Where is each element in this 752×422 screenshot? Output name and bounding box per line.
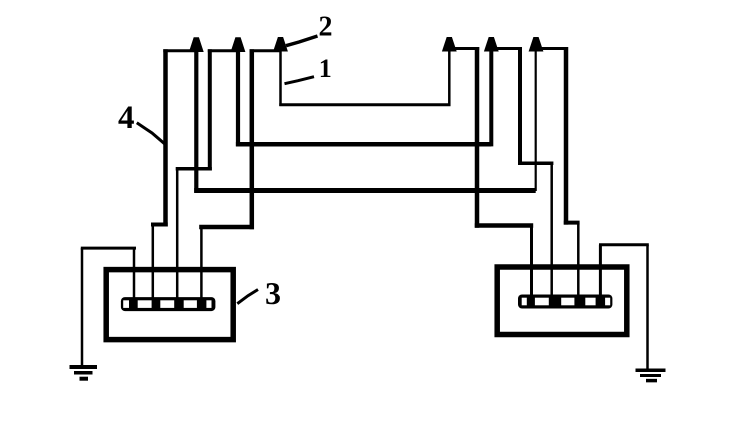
- wire: shield U1 left vertical 4: [163, 49, 168, 226]
- wire: shield U1' top (right): [449, 47, 479, 50]
- wire: arrow R2 shaft: [489, 44, 493, 146]
- wire: right ground vertical: [646, 245, 649, 370]
- wire: shield U1' jog: [475, 223, 533, 228]
- ground (right) bar1: [636, 368, 666, 372]
- wire: left ground vertical: [81, 248, 84, 366]
- wire: shield U1 top (left): [163, 49, 196, 52]
- wire: drop to left connector pin3: [176, 169, 179, 300]
- wire: arrow L2 shaft: [236, 44, 240, 146]
- ground (right) bar3: [646, 379, 657, 383]
- ground (left) bar2: [74, 371, 93, 375]
- connector contact strip (left): [121, 297, 215, 311]
- wire: shield U3' jog: [564, 221, 580, 225]
- wire: shield U2 jog: [176, 167, 212, 171]
- svg-text:2: 2: [319, 12, 333, 43]
- wire: shield U1' right vertical: [475, 47, 480, 228]
- wire: shield U3 top (left): [250, 49, 281, 52]
- ground (left) bar1: [70, 365, 98, 369]
- wire: arrow L3 shaft (thin): [279, 42, 282, 106]
- wire: drop to right connector pin2: [550, 163, 553, 297]
- wire: shield U2' right vertical: [518, 47, 522, 165]
- wire: drop to right connector pin3: [577, 223, 580, 297]
- label 4 leader: [137, 123, 166, 145]
- wire: left ground horizontal: [81, 247, 136, 250]
- wire: shield U2' top (right): [491, 47, 522, 50]
- wire: arrow R3 shaft (thin): [535, 42, 537, 191]
- terminal arrow (R2) head: [484, 37, 499, 52]
- terminal arrow (R3) head: [529, 37, 544, 52]
- connector contact strip (right): [518, 295, 612, 309]
- wire: arrow R1 shaft (thin): [448, 42, 451, 106]
- svg-text:1: 1: [319, 54, 332, 83]
- wire: shield U3 jog: [199, 225, 254, 230]
- label 2 leader: [286, 36, 318, 46]
- connector housing (right box): [497, 267, 627, 335]
- wire: shield U3' right vertical: [564, 47, 569, 225]
- terminal arrow 2 (L1) head: [189, 37, 204, 52]
- wire: shield U1 jog: [151, 223, 168, 227]
- wire 1: long horizontal L2 to R2: [236, 142, 491, 147]
- ground (left) bar3: [80, 377, 89, 381]
- wire: drop to right connector pin1: [530, 226, 533, 298]
- label 3 leader: [237, 290, 258, 304]
- wire: arrow L1 shaft: [194, 44, 198, 193]
- wire: right connector pin4 riser: [599, 245, 602, 297]
- wire: shield U2 left vertical: [208, 49, 212, 170]
- terminal arrow (R1) head: [442, 37, 457, 52]
- terminal arrow 2 (L3) head: [273, 37, 288, 52]
- svg-text:3: 3: [265, 275, 281, 311]
- wire: drop to left connector pin2: [152, 225, 155, 301]
- wire: shield U3' top (right): [536, 47, 568, 50]
- wire: shield U2 top (left): [208, 49, 238, 52]
- wire: shield U3 left vertical: [250, 49, 255, 229]
- wire: left connector pin1 drop: [133, 248, 136, 300]
- wire 1: long horizontal L3 to R1: [279, 103, 450, 106]
- wire: shield U2' jog: [518, 162, 553, 166]
- wire: right ground horizontal: [599, 243, 649, 246]
- svg-text:4: 4: [118, 100, 135, 136]
- terminal arrow 2 (L2) head: [231, 37, 246, 52]
- wire: drop to left connector pin4: [200, 227, 203, 300]
- label 1 leader: [285, 77, 315, 84]
- connector housing 3 (left box): [106, 270, 233, 340]
- wire 1: long horizontal L1 to R3: [194, 188, 536, 193]
- ground (right) bar2: [640, 374, 661, 377]
